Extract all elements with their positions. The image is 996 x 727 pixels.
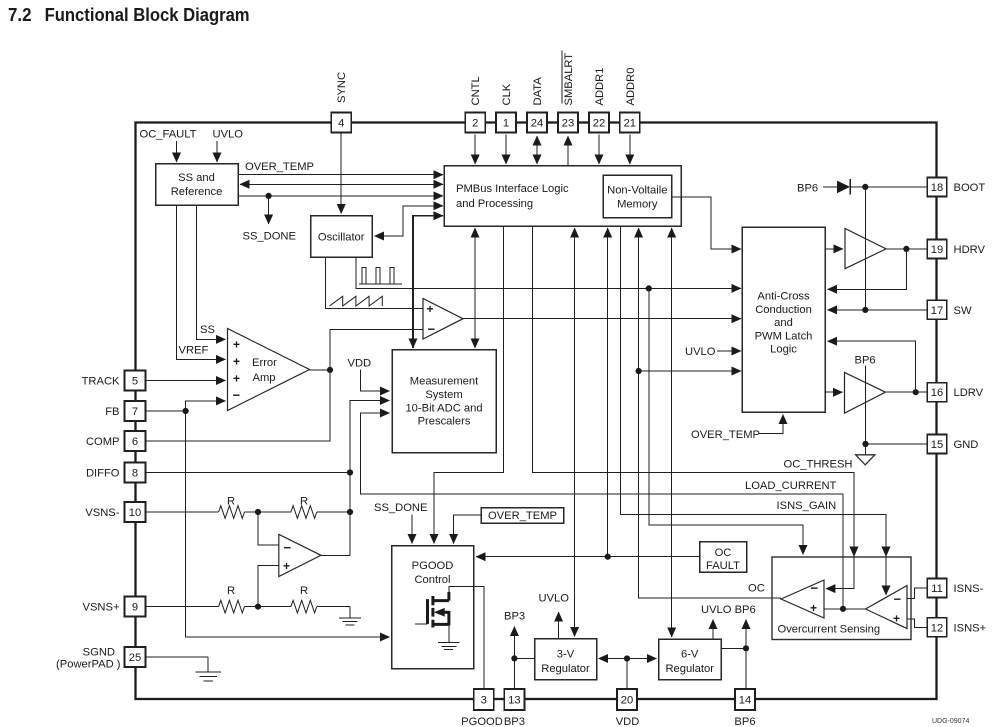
pin 10 VSNS- (85, 502, 145, 522)
wire SS_DONE line from SS and Reference to PMBus (238, 195, 443, 197)
op-amp VSNS diff amp (279, 534, 321, 576)
wire HDRV feedback to Anti-Cross (828, 249, 907, 289)
wire SS_DONE drop arrow (268, 196, 270, 224)
pin 5 TRACK (82, 371, 146, 391)
wire diff amp output (321, 554, 350, 556)
wire ISNS_GAIN from Measurement System to Overcurrent Sensing (361, 413, 843, 609)
svg-text:and Processing: and Processing (456, 198, 533, 210)
svg-text:R: R (227, 496, 235, 508)
svg-text:Regulator: Regulator (541, 663, 590, 675)
junction BOOT (862, 184, 868, 190)
svg-text:CNTL: CNTL (470, 76, 482, 105)
svg-text:OVER_TEMP: OVER_TEMP (245, 161, 314, 173)
ground symbol at SGND pin 25 (146, 656, 209, 658)
svg-text:3: 3 (481, 695, 487, 707)
svg-text:21: 21 (624, 118, 636, 130)
svg-text:−: − (284, 540, 292, 555)
svg-text:DATA: DATA (532, 77, 544, 106)
wire diode to pin 18 BOOT (850, 186, 927, 188)
svg-text:18: 18 (931, 182, 943, 194)
svg-text:TRACK: TRACK (82, 376, 120, 388)
boxed label OVER_TEMP (481, 508, 564, 524)
box Non-Voltaile Memory (603, 175, 672, 218)
junction HDRV output (903, 246, 909, 252)
wire 6-V Regulator to BP6 junction (721, 647, 746, 649)
wire junction up to diff amp noninverting input (258, 566, 279, 607)
pin 22 ADDR1 (589, 68, 609, 133)
svg-text:VDD: VDD (616, 716, 640, 727)
pin 4 SYNC (331, 72, 351, 133)
wire BP3 from pin 13 (513, 627, 515, 690)
svg-text:HDRV: HDRV (954, 244, 986, 256)
junction OC FAULT line (605, 554, 611, 560)
junction on SS_DONE line (266, 193, 272, 199)
svg-text:OC_FAULT: OC_FAULT (140, 129, 197, 141)
svg-text:6: 6 (132, 436, 138, 448)
svg-text:BP6: BP6 (734, 716, 755, 727)
svg-text:BP3: BP3 (504, 611, 525, 623)
svg-text:ISNS+: ISNS+ (954, 622, 987, 634)
svg-text:BP3: BP3 (504, 716, 525, 727)
svg-text:LOAD_CURRENT: LOAD_CURRENT (745, 480, 837, 492)
svg-text:7.2: 7.2 (8, 4, 32, 25)
svg-text:+: + (233, 338, 240, 352)
wire SS_DONE arrow into PGOOD Control (411, 515, 413, 544)
svg-text:+: + (283, 559, 290, 573)
svg-text:5: 5 (132, 376, 138, 388)
wire GND line pin 15 (866, 443, 928, 445)
svg-text:Functional Block Diagram: Functional Block Diagram (45, 4, 250, 25)
transistor Q1 PGOOD MOSFET (415, 592, 460, 650)
op-amp PWM comparator (423, 299, 463, 340)
wire PMBus to Oscillator (390, 206, 443, 236)
box 3-V Regulator (535, 639, 597, 680)
svg-text:Oscillator: Oscillator (318, 232, 365, 244)
svg-text:+: + (893, 612, 900, 626)
wire VDD to 6-V Regulator (627, 658, 657, 660)
wire ISNS amp output to OC comparator (824, 608, 866, 610)
svg-text:10-Bit ADC and: 10-Bit ADC and (405, 403, 482, 415)
svg-text:23: 23 (562, 118, 574, 130)
wire DIFFO up into Measurement System (350, 401, 390, 473)
svg-text:Amp: Amp (253, 372, 276, 384)
svg-text:UDG-09074: UDG-09074 (932, 718, 969, 725)
pin 21 ADDR0 (620, 68, 640, 133)
svg-text:GND: GND (954, 439, 979, 451)
svg-text:ADDR1: ADDR1 (594, 68, 606, 106)
box Overcurrent Sensing (772, 557, 911, 640)
svg-text:BOOT: BOOT (954, 182, 986, 194)
svg-text:SYNC: SYNC (336, 72, 348, 103)
svg-text:VREF: VREF (179, 345, 209, 357)
wire UVLO up from 6-V Regulator (712, 620, 714, 640)
wire NVM to Anti-Cross (672, 197, 742, 249)
svg-text:11: 11 (931, 583, 943, 595)
svg-text:SS: SS (200, 324, 215, 336)
svg-text:BP6: BP6 (797, 183, 818, 195)
wire clock branch down to Overcurrent Sensing (649, 288, 803, 554)
junction BP6 (743, 645, 749, 651)
svg-text:VSNS+: VSNS+ (83, 602, 120, 614)
svg-text:Reference: Reference (171, 186, 223, 198)
svg-text:UVLO: UVLO (539, 593, 570, 605)
svg-text:PMBus Interface Logic: PMBus Interface Logic (456, 183, 569, 195)
box PGOOD Control (392, 546, 474, 669)
wire MOSFET drain to pin 3 PGOOD (449, 586, 484, 689)
wire UVLO arrow into SS and Reference (216, 141, 218, 162)
pin 1 CLK (496, 83, 516, 132)
svg-text:R: R (300, 585, 308, 597)
wire HDRV output to pin 19 (886, 248, 928, 250)
driver HDRV buffer (845, 229, 886, 269)
pin 9 VSNS+ wire through resistors (146, 606, 219, 608)
wire SYNC pin to Oscillator (340, 133, 342, 214)
wire BP6 vertical through LDRV driver to GND line (865, 366, 867, 444)
wire PMBus-Measurement bidirectional bus (474, 228, 476, 290)
OC_THRESH open triangle symbol (865, 444, 867, 455)
wire oscillator clock output to Anti-Cross (356, 257, 741, 288)
pin 23 SMBALRT (558, 51, 578, 133)
svg-text:Measurement: Measurement (410, 376, 479, 388)
pin 12 ISNS+ (927, 618, 986, 637)
op-amp OC comparator (781, 580, 824, 618)
svg-text:BP6: BP6 (855, 355, 876, 367)
wire pin 2 into PMBus (474, 135, 476, 165)
wire OVER_TEMP into PGOOD Control (454, 515, 481, 544)
junction LDRV output (913, 389, 919, 395)
svg-text:1: 1 (503, 118, 509, 130)
svg-text:ADDR0: ADDR0 (625, 68, 637, 106)
wire PMBus down to PGOOD Control (434, 226, 503, 544)
svg-text:UVLO: UVLO (685, 346, 716, 358)
wire FB down to PGOOD Control (186, 411, 390, 637)
driver LDRV buffer (845, 372, 886, 413)
wire pin 21 into PMBus (629, 135, 631, 165)
svg-text:PGOOD: PGOOD (412, 560, 454, 572)
wire PMBus to OC FAULT line (607, 228, 609, 300)
pin 24 DATA (527, 77, 547, 133)
svg-text:7: 7 (132, 406, 138, 418)
wire junction down to diff amp inverting input (258, 512, 279, 545)
svg-text:SS_DONE: SS_DONE (374, 502, 427, 514)
chip boundary border (136, 123, 937, 700)
svg-text:SMBALRT: SMBALRT (563, 53, 575, 106)
pin 15 GND (927, 435, 978, 454)
wire LDRV feedback to Anti-Cross (828, 341, 916, 392)
wire OVER_TEMP from SS and Reference to PMBus (238, 174, 443, 176)
wire bootstrap vertical to SW line (864, 187, 866, 310)
svg-text:19: 19 (931, 244, 943, 256)
svg-text:Error: Error (252, 357, 277, 369)
svg-text:(PowerPAD ): (PowerPAD ) (56, 659, 121, 671)
svg-text:OC: OC (748, 583, 765, 595)
wire DIFFO down to diff amp output (349, 473, 351, 556)
svg-text:OC: OC (715, 547, 732, 559)
pin 14 BP6 (734, 689, 755, 727)
wire Error Amp output (310, 369, 331, 371)
junction clock line (646, 285, 652, 291)
svg-text:9: 9 (132, 602, 138, 614)
wire PWM comparator output to Anti-Cross (463, 318, 741, 320)
pin 20 VDD (616, 689, 640, 727)
pin 10 VSNS- wire through resistors (146, 511, 219, 513)
svg-text:Conduction: Conduction (755, 304, 812, 316)
svg-text:3-V: 3-V (557, 649, 575, 661)
pin 6 COMP wire up to PWM comparator inverting input (146, 330, 423, 442)
svg-text:10: 10 (129, 507, 141, 519)
pin 3 PGOOD (461, 689, 503, 727)
sawtooth ramp glyph (330, 296, 383, 306)
svg-text:CLK: CLK (501, 83, 513, 105)
svg-text:ISNS-: ISNS- (954, 583, 984, 595)
pin 2 CNTL (465, 76, 485, 132)
junction error amp output (327, 367, 333, 373)
svg-text:SS_DONE: SS_DONE (243, 231, 296, 243)
svg-text:COMP: COMP (86, 436, 120, 448)
wire PMBus down to ISNS comparator (621, 226, 886, 595)
pin 7 FB (105, 401, 145, 421)
svg-text:17: 17 (931, 305, 943, 317)
wire pin 12 ISNS+ to amp (907, 619, 927, 627)
pin 9 VSNS+ (83, 597, 146, 617)
arrowheads into Overcurrent Sensing top (850, 547, 859, 558)
junction GND line (862, 441, 868, 447)
ground symbol at R4 (339, 607, 361, 625)
wire oscillator ramp output to PWM comparator (325, 257, 422, 308)
wire PMBus to 6-V Regulator (671, 228, 673, 300)
diode D1 (837, 181, 850, 194)
wire BP3 junction to 3-V Regulator (514, 657, 534, 659)
svg-text:Control: Control (414, 574, 450, 586)
pin 16 LDRV (927, 383, 983, 402)
pin 5 TRACK wire into Error Amp (146, 380, 226, 382)
junction BP3 (511, 655, 517, 661)
wire pin 23 from PMBus (567, 136, 569, 166)
svg-text:SGND: SGND (83, 647, 115, 659)
svg-text:12: 12 (931, 622, 943, 634)
box Oscillator (311, 216, 373, 258)
wire OC up to PMBus (638, 228, 640, 300)
wire pin 22 into PMBus (598, 135, 600, 165)
svg-text:VDD: VDD (348, 358, 372, 370)
wire pin 1 into PMBus (505, 135, 507, 165)
svg-text:−: − (811, 581, 819, 596)
svg-text:and: and (774, 317, 793, 329)
svg-text:25: 25 (129, 652, 141, 664)
wire PMBus to Measurement System left link (413, 216, 443, 348)
svg-text:OVER_TEMP: OVER_TEMP (691, 429, 760, 441)
box Measurement System (392, 350, 496, 453)
wire pin 24 bidirectional with PMBus (536, 136, 538, 150)
svg-text:+: + (233, 355, 240, 369)
svg-text:R: R (227, 585, 235, 597)
svg-text:PGOOD: PGOOD (461, 716, 503, 727)
clock pulse waveform glyph (359, 268, 402, 285)
wire LDRV output to pin 16 (886, 391, 928, 393)
svg-text:FB: FB (105, 406, 119, 418)
svg-text:−: − (428, 322, 436, 337)
svg-text:16: 16 (931, 387, 943, 399)
junction ISNS amp output (840, 606, 846, 612)
box Anti-Cross Conduction and PWM Latch Logic (742, 227, 825, 412)
svg-text:4: 4 (338, 118, 344, 130)
junction DIFFO (347, 469, 353, 475)
wire VREF from SS and Reference to Error Amp (177, 205, 226, 359)
svg-text:DIFFO: DIFFO (86, 468, 120, 480)
svg-text:Logic: Logic (770, 344, 797, 356)
svg-text:ISNS_GAIN: ISNS_GAIN (777, 500, 837, 512)
svg-text:OVER_TEMP: OVER_TEMP (488, 510, 557, 522)
pin 13 BP3 (504, 689, 525, 727)
wire pin 11 ISNS- to amp (907, 588, 927, 598)
svg-text:Non-Voltaile: Non-Voltaile (607, 185, 667, 197)
svg-text:VSNS-: VSNS- (85, 507, 119, 519)
svg-text:6-V: 6-V (681, 649, 699, 661)
wire BP6 to diode (823, 186, 837, 188)
svg-text:−: − (233, 388, 241, 403)
svg-text:13: 13 (508, 695, 520, 707)
op-amp ISNS current sense amp (866, 586, 908, 629)
wire UVLO up from 3-V Regulator (558, 612, 560, 639)
svg-text:24: 24 (531, 118, 543, 130)
junction on VSNS feedback (347, 509, 353, 515)
wire VDD pin 20 riser (626, 659, 628, 690)
wire from PMBus into SS and Reference (240, 183, 340, 185)
junction SW line (862, 307, 868, 313)
svg-text:15: 15 (931, 439, 943, 451)
wire Anti-Cross to LDRV driver input (825, 391, 843, 393)
svg-text:OC_THRESH: OC_THRESH (784, 459, 853, 471)
wire BP6 junction down to pin 14 (745, 648, 747, 689)
pin 18 BOOT (927, 178, 985, 197)
box OC FAULT (700, 542, 747, 573)
box SS and Reference (156, 164, 239, 206)
svg-text:UVLO: UVLO (213, 129, 244, 141)
junction between R1 R2 (255, 509, 261, 515)
junction OC to Anti-Cross (636, 368, 642, 374)
svg-text:20: 20 (621, 695, 633, 707)
pin 7 FB wire and junction (146, 410, 186, 412)
wire OC branch to Anti-Cross (639, 370, 741, 372)
svg-text:Overcurrent Sensing: Overcurrent Sensing (778, 624, 881, 636)
svg-text:+: + (810, 601, 817, 615)
svg-text:22: 22 (593, 118, 605, 130)
svg-text:Prescalers: Prescalers (418, 416, 471, 428)
svg-text:SS and: SS and (178, 172, 215, 184)
pin 8 DIFFO (86, 463, 146, 483)
wire PMBus to 3-V Regulator (574, 228, 576, 300)
wire VDD into Measurement System (361, 369, 390, 391)
svg-text:UVLO BP6: UVLO BP6 (701, 604, 756, 616)
op-amp Error Amp (228, 329, 310, 411)
pin 8 DIFFO wire (146, 472, 351, 474)
pin 17 SW (927, 300, 972, 319)
wire VDD to 3-V Regulator (599, 658, 628, 660)
svg-text:14: 14 (739, 695, 751, 707)
svg-text:Anti-Cross: Anti-Cross (757, 291, 810, 303)
svg-text:FAULT: FAULT (706, 560, 740, 572)
wire SW pin to Anti-Cross (828, 309, 928, 311)
svg-text:2: 2 (472, 118, 478, 130)
svg-text:−: − (894, 592, 902, 607)
svg-text:8: 8 (132, 468, 138, 480)
wire BP6 up arrow (745, 620, 747, 649)
svg-text:LDRV: LDRV (954, 387, 984, 399)
svg-text:+: + (233, 372, 240, 386)
wire Anti-Cross to HDRV driver input (825, 248, 843, 250)
pin 11 ISNS- (927, 579, 983, 598)
svg-text:SW: SW (954, 305, 972, 317)
heading 7.2 Functional Block Diagram (8, 4, 250, 25)
box PMBus Interface Logic and Processing (444, 166, 681, 227)
pin 25 SGND PowerPAD (56, 647, 145, 671)
wire SS from SS and Reference to Error Amp (196, 205, 225, 339)
junction between R3 R4 (255, 604, 261, 610)
svg-text:+: + (427, 302, 434, 316)
pin 6 COMP (86, 431, 146, 451)
svg-text:System: System (425, 389, 462, 401)
svg-text:Regulator: Regulator (665, 663, 714, 675)
wire OC_FAULT arrow into SS and Reference (176, 141, 178, 162)
pin 19 HDRV (927, 240, 985, 259)
svg-text:Memory: Memory (617, 199, 658, 211)
svg-text:PWM Latch: PWM Latch (755, 330, 813, 342)
wire OC FAULT to PGOOD Control (476, 556, 700, 558)
wire LOAD_CURRENT from PMBus to Overcurrent Sensing (532, 226, 854, 589)
box 6-V Regulator (659, 639, 722, 680)
junction VDD (624, 655, 630, 661)
